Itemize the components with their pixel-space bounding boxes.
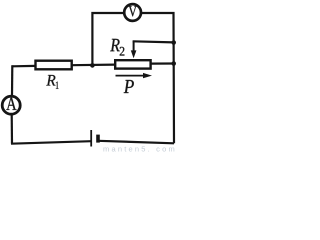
wire left rail lower (ammeter to bottom corner) [11, 114, 14, 144]
ammeter A [2, 96, 20, 114]
node junction main wire / right rail [171, 61, 176, 66]
wire main run: left corner to R1 [12, 65, 35, 68]
wire wiper to right rail [133, 41, 174, 42]
battery cell (long positive plate) [90, 130, 92, 147]
node junction wiper wire / right rail [171, 40, 176, 45]
label R2 [110, 39, 124, 56]
resistor R1 [36, 61, 72, 70]
wire left rail upper (corner to ammeter) [11, 65, 14, 96]
wire voltmeter loop right (top run from voltmeter and right rail down) [141, 13, 174, 143]
wire voltmeter loop left (vertical leg and top run to voltmeter) [92, 13, 124, 65]
node junction with voltmeter tap [90, 63, 95, 68]
voltmeter V [124, 4, 141, 21]
wire bottom right (battery to right rail) [98, 141, 174, 144]
arrow P (wiper travel direction) [116, 73, 153, 78]
label P [124, 80, 134, 93]
svg-text:manten5. com: manten5. com [103, 145, 177, 153]
wiper arrow of rheostat R2 [131, 41, 137, 58]
wire R2 right end to right rail [151, 62, 174, 64]
wire R1 to R2 [72, 63, 115, 66]
rheostat R2 body [115, 60, 150, 68]
label R1 [46, 75, 58, 89]
wire bottom left (corner to battery) [11, 141, 91, 144]
battery cell (short negative plate) [96, 135, 100, 143]
